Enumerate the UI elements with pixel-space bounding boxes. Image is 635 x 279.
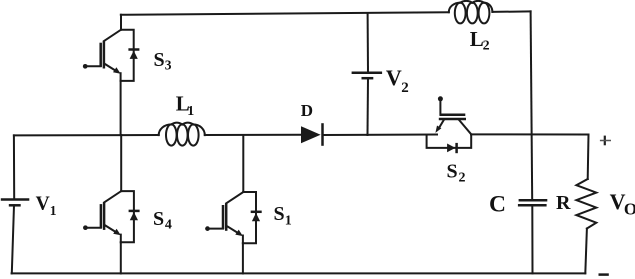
svg-text:S: S (447, 161, 458, 183)
svg-text:2: 2 (401, 80, 409, 96)
svg-text:V: V (36, 194, 50, 215)
svg-text:O: O (624, 199, 635, 218)
svg-text:V: V (386, 65, 402, 90)
svg-text:1: 1 (187, 104, 194, 119)
svg-text:4: 4 (165, 218, 172, 233)
svg-text:R: R (556, 192, 571, 214)
svg-text:2: 2 (459, 171, 466, 186)
svg-text:2: 2 (483, 39, 490, 54)
svg-text:S: S (153, 208, 164, 230)
svg-text:C: C (489, 192, 506, 218)
svg-text:S: S (274, 203, 285, 225)
svg-text:D: D (301, 101, 313, 120)
svg-text:S: S (154, 49, 165, 71)
svg-text:1: 1 (50, 203, 57, 218)
svg-text:3: 3 (165, 58, 172, 73)
svg-text:1: 1 (285, 214, 292, 229)
